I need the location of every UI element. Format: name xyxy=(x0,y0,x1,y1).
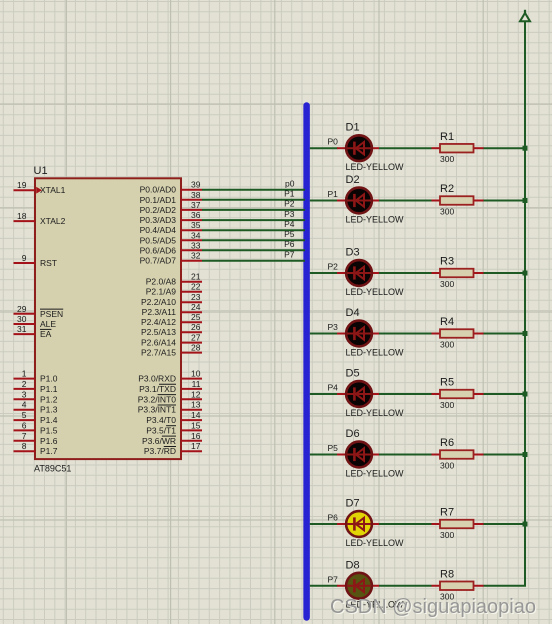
svg-text:22: 22 xyxy=(191,282,201,292)
svg-text:19: 19 xyxy=(17,180,27,190)
resistor R1 xyxy=(432,144,484,153)
pin 12 (P3.2/INT0) of U1 xyxy=(138,389,202,404)
wire R2 to VCC rail xyxy=(484,200,526,202)
wire D6 to R6 xyxy=(379,454,432,456)
pin 37 (P0.2/AD2) of U1 xyxy=(140,200,202,215)
wire bus to D2 (net P1) xyxy=(310,200,338,202)
resistor R7 xyxy=(432,520,484,529)
svg-text:P6: P6 xyxy=(328,513,339,523)
watermark xyxy=(330,596,537,619)
wire R5 to VCC rail xyxy=(484,393,526,395)
svg-text:P3.0/RXD: P3.0/RXD xyxy=(138,374,176,384)
svg-text:p0: p0 xyxy=(285,179,295,189)
svg-text:P6: P6 xyxy=(284,239,295,249)
svg-text:P3.1/TXD: P3.1/TXD xyxy=(139,384,176,394)
svg-text:33: 33 xyxy=(191,240,201,250)
svg-text:38: 38 xyxy=(191,190,201,200)
svg-text:PSEN: PSEN xyxy=(40,309,63,319)
pin 6 (P1.5) of U1 xyxy=(14,420,58,435)
pin 9 (RST) of U1 xyxy=(14,253,58,268)
svg-text:6: 6 xyxy=(22,420,27,430)
power symbol VCC (arrow) xyxy=(520,10,530,21)
wire P0.4 pin to bus xyxy=(202,229,305,231)
clock input marker on XTAL1 xyxy=(36,187,42,194)
resistor R2 xyxy=(432,196,484,205)
svg-text:P1.4: P1.4 xyxy=(40,415,58,425)
svg-text:21: 21 xyxy=(191,272,201,282)
svg-text:CSDN @siguapiaopiao: CSDN @siguapiaopiao xyxy=(330,596,536,618)
pin 3 (P1.2) of U1 xyxy=(14,389,58,404)
svg-text:3: 3 xyxy=(22,389,27,399)
svg-text:25: 25 xyxy=(191,312,201,322)
svg-text:P3.7/RD: P3.7/RD xyxy=(144,446,176,456)
svg-text:23: 23 xyxy=(191,292,201,302)
pin 2 (P1.1) of U1 xyxy=(14,379,58,394)
svg-text:P0.2/AD2: P0.2/AD2 xyxy=(140,205,177,215)
svg-text:D3: D3 xyxy=(346,247,360,259)
pin 35 (P0.4/AD4) of U1 xyxy=(140,220,202,235)
svg-text:P1.1: P1.1 xyxy=(40,384,58,394)
svg-text:P7: P7 xyxy=(284,250,295,260)
svg-text:R6: R6 xyxy=(440,437,454,449)
LED D2 xyxy=(337,188,379,214)
svg-text:P2.3/A11: P2.3/A11 xyxy=(142,307,177,317)
svg-text:P1.7: P1.7 xyxy=(40,446,58,456)
svg-text:300: 300 xyxy=(440,400,454,410)
svg-text:LED-YELLOW: LED-YELLOW xyxy=(346,468,405,478)
svg-text:P3: P3 xyxy=(328,322,339,332)
svg-text:P0.6/AD6: P0.6/AD6 xyxy=(140,245,177,255)
svg-text:P0: P0 xyxy=(328,137,339,147)
wire D7 to R7 xyxy=(379,523,432,525)
LED D6 xyxy=(337,442,379,468)
pin 4 (P1.3) of U1 xyxy=(14,400,58,415)
pin 1 (P1.0) of U1 xyxy=(14,369,58,384)
svg-text:P1.2: P1.2 xyxy=(40,394,58,404)
svg-text:R1: R1 xyxy=(440,131,454,143)
wire D1 to R1 xyxy=(379,147,432,149)
svg-text:P0.1/AD1: P0.1/AD1 xyxy=(140,195,177,205)
svg-text:LED-YELLOW: LED-YELLOW xyxy=(346,538,405,548)
chip U1 (AT89C51) xyxy=(35,178,181,459)
svg-text:R2: R2 xyxy=(440,183,454,195)
wire R6 to VCC rail xyxy=(484,454,526,456)
LED D1 xyxy=(337,135,379,161)
svg-text:15: 15 xyxy=(191,420,201,430)
svg-text:P2: P2 xyxy=(284,199,295,209)
svg-text:P3.5/T1: P3.5/T1 xyxy=(146,425,176,435)
junction on VCC rail xyxy=(523,392,528,397)
resistor R4 xyxy=(432,329,484,338)
svg-text:P2.0/A8: P2.0/A8 xyxy=(146,277,177,287)
wire R7 to VCC rail xyxy=(484,523,526,525)
svg-text:LED-YELLOW: LED-YELLOW xyxy=(346,408,405,418)
svg-text:34: 34 xyxy=(191,230,201,240)
wire D3 to R3 xyxy=(379,272,432,274)
wire bus to D3 (net P2) xyxy=(310,272,338,274)
wire D8 to R8 xyxy=(379,585,432,587)
pin 32 (P0.7/AD7) of U1 xyxy=(140,251,202,266)
pin 28 (P2.7/A15) of U1 xyxy=(141,343,202,358)
svg-text:R4: R4 xyxy=(440,316,454,328)
svg-text:P3.3/INT1: P3.3/INT1 xyxy=(138,405,177,415)
svg-text:39: 39 xyxy=(191,180,201,190)
LED D7 xyxy=(337,511,379,537)
svg-text:R5: R5 xyxy=(440,377,454,389)
svg-text:32: 32 xyxy=(191,251,201,261)
svg-text:P0.5/AD5: P0.5/AD5 xyxy=(140,235,177,245)
svg-text:P5: P5 xyxy=(328,443,339,453)
svg-text:D6: D6 xyxy=(346,428,360,440)
pin 31 (EA) of U1 xyxy=(14,324,52,339)
wire bus to D7 (net P6) xyxy=(310,523,338,525)
svg-text:P3.6/WR: P3.6/WR xyxy=(142,436,176,446)
svg-text:R7: R7 xyxy=(440,507,454,519)
svg-text:LED-YELLOW: LED-YELLOW xyxy=(346,162,405,172)
junction on VCC rail xyxy=(523,522,528,527)
svg-text:P1: P1 xyxy=(284,189,295,199)
svg-text:P2: P2 xyxy=(328,262,339,272)
svg-text:300: 300 xyxy=(440,460,454,470)
svg-text:P4: P4 xyxy=(328,383,339,393)
svg-text:8: 8 xyxy=(22,441,27,451)
svg-text:30: 30 xyxy=(17,314,27,324)
wire bus to D1 (net P0) xyxy=(310,147,338,149)
svg-text:P7: P7 xyxy=(328,574,339,584)
wire bus to D5 (net P4) xyxy=(310,393,338,395)
svg-text:17: 17 xyxy=(191,441,201,451)
wire D4 to R4 xyxy=(379,333,432,335)
pin 21 (P2.0/A8) of U1 xyxy=(146,272,202,287)
pin 15 (P3.5/T1) of U1 xyxy=(146,420,202,435)
pin 18 (XTAL2) of U1 xyxy=(14,211,66,226)
bus (P0 net bundle) xyxy=(303,106,310,618)
svg-text:LED-YELLOW: LED-YELLOW xyxy=(346,287,405,297)
svg-text:35: 35 xyxy=(191,220,201,230)
svg-text:AT89C51: AT89C51 xyxy=(34,464,71,474)
svg-text:D1: D1 xyxy=(346,122,360,134)
pin 22 (P2.1/A9) of U1 xyxy=(146,282,202,297)
svg-text:13: 13 xyxy=(191,400,201,410)
pin 26 (P2.5/A13) of U1 xyxy=(141,322,202,337)
svg-text:R3: R3 xyxy=(440,256,454,268)
wire R1 to VCC rail xyxy=(484,147,526,149)
svg-text:XTAL1: XTAL1 xyxy=(40,185,66,195)
junction on VCC rail xyxy=(523,271,528,276)
svg-text:P2.5/A13: P2.5/A13 xyxy=(141,327,176,337)
svg-text:1: 1 xyxy=(22,369,27,379)
svg-text:12: 12 xyxy=(191,389,201,399)
svg-text:D4: D4 xyxy=(346,307,360,319)
svg-text:29: 29 xyxy=(17,304,27,314)
svg-text:24: 24 xyxy=(191,302,201,312)
pin 19 (XTAL1) of U1 xyxy=(14,180,66,195)
wire P0.5 pin to bus xyxy=(202,239,305,241)
svg-text:31: 31 xyxy=(17,324,27,334)
wire bus to D6 (net P5) xyxy=(310,454,338,456)
svg-text:P0.0/AD0: P0.0/AD0 xyxy=(140,185,177,195)
svg-text:37: 37 xyxy=(191,200,201,210)
wire P0.3 pin to bus xyxy=(202,219,305,221)
wire P0.0 pin to bus xyxy=(202,189,305,191)
wire R4 to VCC rail xyxy=(484,333,526,335)
svg-text:P2.4/A12: P2.4/A12 xyxy=(141,317,176,327)
pin 13 (P3.3/INT1) of U1 xyxy=(138,400,202,415)
pin 34 (P0.5/AD5) of U1 xyxy=(140,230,202,245)
svg-text:11: 11 xyxy=(192,379,201,389)
pin 10 (P3.0/RXD) of U1 xyxy=(138,369,202,384)
svg-text:RST: RST xyxy=(40,258,57,268)
pin 39 (P0.0/AD0) of U1 xyxy=(140,180,202,195)
svg-text:P1.6: P1.6 xyxy=(40,436,58,446)
svg-text:R8: R8 xyxy=(440,568,454,580)
svg-text:P2.7/A15: P2.7/A15 xyxy=(141,348,176,358)
pin 11 (P3.1/TXD) of U1 xyxy=(139,379,202,394)
pin 33 (P0.6/AD6) of U1 xyxy=(140,240,202,255)
resistor R6 xyxy=(432,450,484,459)
pin 38 (P0.1/AD1) of U1 xyxy=(140,190,202,205)
svg-text:P1.0: P1.0 xyxy=(40,374,58,384)
LED D8 xyxy=(337,573,379,599)
svg-text:5: 5 xyxy=(22,410,27,420)
svg-text:P1.5: P1.5 xyxy=(40,425,58,435)
wire P0.2 pin to bus xyxy=(202,209,305,211)
pin 23 (P2.2/A10) of U1 xyxy=(141,292,202,307)
svg-text:LED-YELLOW: LED-YELLOW xyxy=(346,214,405,224)
svg-text:P0.3/AD3: P0.3/AD3 xyxy=(140,215,177,225)
svg-text:P1.3: P1.3 xyxy=(40,405,58,415)
pin 5 (P1.4) of U1 xyxy=(14,410,58,425)
svg-text:300: 300 xyxy=(440,206,454,216)
svg-text:P5: P5 xyxy=(284,229,295,239)
wire bus to D4 (net P3) xyxy=(310,333,338,335)
LED D5 xyxy=(337,381,379,407)
svg-text:300: 300 xyxy=(440,279,454,289)
svg-text:27: 27 xyxy=(191,333,201,343)
svg-text:4: 4 xyxy=(22,400,27,410)
svg-text:XTAL2: XTAL2 xyxy=(40,216,66,226)
svg-text:P1: P1 xyxy=(328,189,339,199)
svg-text:P3: P3 xyxy=(284,209,295,219)
svg-text:P0.7/AD7: P0.7/AD7 xyxy=(140,256,177,266)
svg-text:300: 300 xyxy=(440,154,454,164)
wire VCC rail xyxy=(484,22,526,586)
svg-text:7: 7 xyxy=(22,431,27,441)
pin 8 (P1.7) of U1 xyxy=(14,441,58,456)
svg-text:D8: D8 xyxy=(346,559,360,571)
svg-text:300: 300 xyxy=(440,530,454,540)
svg-text:P2.2/A10: P2.2/A10 xyxy=(141,297,176,307)
svg-text:D7: D7 xyxy=(346,498,360,510)
svg-text:2: 2 xyxy=(22,379,27,389)
svg-text:16: 16 xyxy=(191,431,201,441)
wire P0.6 pin to bus xyxy=(202,249,305,251)
svg-text:EA: EA xyxy=(40,329,52,339)
svg-text:P4: P4 xyxy=(284,219,295,229)
svg-text:D5: D5 xyxy=(346,368,360,380)
resistor R3 xyxy=(432,269,484,278)
wire D2 to R2 xyxy=(379,200,432,202)
svg-text:P3.2/INT0: P3.2/INT0 xyxy=(138,394,177,404)
pin 14 (P3.4/T0) of U1 xyxy=(146,410,202,425)
pin 36 (P0.3/AD3) of U1 xyxy=(140,210,202,225)
pin 25 (P2.4/A12) of U1 xyxy=(141,312,202,327)
wire bus to D8 (net P7) xyxy=(310,585,338,587)
svg-text:9: 9 xyxy=(22,253,27,263)
svg-text:ALE: ALE xyxy=(40,319,56,329)
LED D4 xyxy=(337,321,379,347)
resistor R5 xyxy=(432,390,484,399)
wire P0.7 pin to bus xyxy=(202,260,305,262)
svg-text:P0.4/AD4: P0.4/AD4 xyxy=(140,225,177,235)
wire R3 to VCC rail xyxy=(484,272,526,274)
svg-text:300: 300 xyxy=(440,339,454,349)
pin 17 (P3.7/RD) of U1 xyxy=(144,441,202,456)
wire D5 to R5 xyxy=(379,393,432,395)
LED D3 xyxy=(337,260,379,286)
svg-text:18: 18 xyxy=(17,211,27,221)
svg-text:P2.1/A9: P2.1/A9 xyxy=(146,287,177,297)
pin 29 (PSEN) of U1 xyxy=(14,304,64,319)
junction on VCC rail xyxy=(523,146,528,151)
svg-text:LED-YELLOW: LED-YELLOW xyxy=(346,347,405,357)
svg-text:D2: D2 xyxy=(346,174,360,186)
pin 7 (P1.6) of U1 xyxy=(14,431,58,446)
svg-text:P2.6/A14: P2.6/A14 xyxy=(141,338,176,348)
junction on VCC rail xyxy=(523,198,528,203)
pin 16 (P3.6/WR) of U1 xyxy=(142,431,202,446)
svg-text:10: 10 xyxy=(191,369,201,379)
resistor R8 xyxy=(432,582,484,591)
pin 24 (P2.3/A11) of U1 xyxy=(142,302,202,317)
junction on VCC rail xyxy=(523,331,528,336)
pin 27 (P2.6/A14) of U1 xyxy=(141,333,202,348)
junction on VCC rail xyxy=(523,452,528,457)
svg-text:26: 26 xyxy=(191,322,201,332)
svg-text:14: 14 xyxy=(191,410,201,420)
wire P0.1 pin to bus xyxy=(202,199,305,201)
pin 30 (ALE) of U1 xyxy=(14,314,57,329)
svg-text:P3.4/T0: P3.4/T0 xyxy=(146,415,176,425)
svg-text:28: 28 xyxy=(191,343,201,353)
svg-text:36: 36 xyxy=(191,210,201,220)
svg-text:U1: U1 xyxy=(34,165,48,177)
